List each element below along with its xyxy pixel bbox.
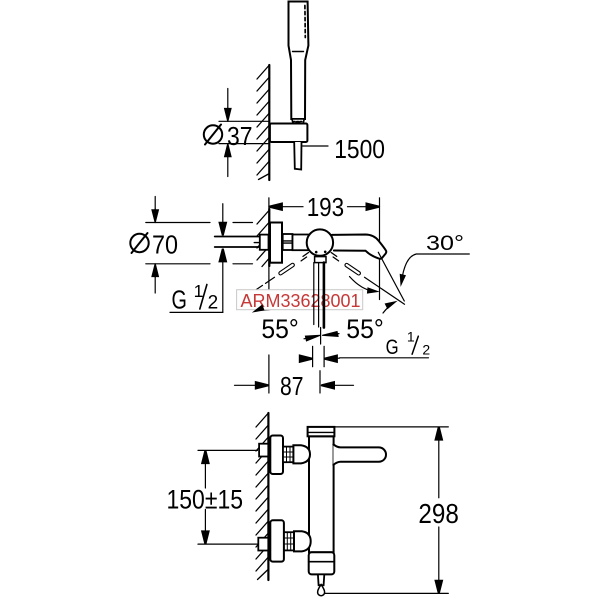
bottom union: in-wall pipe bbox=[258, 538, 268, 551]
svg-text:87: 87 bbox=[280, 371, 304, 401]
bottom outlet block bbox=[309, 552, 335, 574]
swing dashes right bbox=[331, 253, 338, 261]
connector scallop dots bbox=[294, 121, 304, 123]
wall line (middle view) bbox=[268, 209, 270, 266]
svg-text:70: 70 bbox=[152, 230, 178, 260]
svg-text:2: 2 bbox=[208, 293, 219, 314]
dimension G1/2 bottom arrows bbox=[300, 356, 313, 362]
dimension Ø37 extension lines bbox=[219, 89, 268, 177]
spray face dashes on head bbox=[304, 6, 306, 38]
dimension Ø70 arrows bbox=[152, 209, 158, 223]
right 55 arc arrow bbox=[350, 277, 375, 292]
dimension 87 bbox=[235, 355, 354, 393]
label Ø37 bbox=[204, 125, 222, 143]
dimension G1/2 top: underline and leader bbox=[170, 204, 223, 313]
lever handle bbox=[333, 444, 386, 465]
svg-text:55°: 55° bbox=[346, 314, 384, 344]
dimension Ø70 extension lines bbox=[146, 197, 253, 294]
water drop bbox=[318, 585, 325, 596]
wall line (bottom view) bbox=[267, 413, 269, 580]
wall line (top view) bbox=[268, 65, 270, 180]
dimension Ø37 dimension line bbox=[227, 89, 229, 111]
ARM33628001 box bbox=[237, 290, 363, 310]
dimension 193 arrows bbox=[269, 204, 282, 210]
handle capsule right (dashed position) bbox=[344, 263, 361, 276]
bottom union: escutcheon bbox=[270, 520, 284, 561]
body neck bbox=[293, 235, 309, 251]
dimension 150±15 bbox=[198, 450, 258, 544]
svg-text:193: 193 bbox=[307, 192, 345, 222]
top cap bbox=[308, 427, 335, 436]
hose connector cone bbox=[292, 119, 304, 124]
svg-text:2: 2 bbox=[422, 341, 430, 357]
left 55 arc bbox=[261, 305, 294, 311]
top union: nut bbox=[293, 445, 310, 463]
hose center line bbox=[320, 328, 322, 345]
label Ø70 bbox=[130, 234, 148, 252]
svg-text:298: 298 bbox=[418, 498, 458, 529]
dimension G1/2 bottom extension lines bbox=[302, 346, 429, 366]
svg-text:150±15: 150±15 bbox=[167, 485, 244, 515]
spout angle line 30deg bbox=[378, 252, 404, 301]
hose below holder bbox=[294, 142, 301, 170]
top union: threaded nipple bbox=[283, 447, 293, 463]
svg-text:1500: 1500 bbox=[334, 134, 385, 164]
30deg leader arc arrow bbox=[401, 254, 469, 283]
right swing line continuation bbox=[365, 277, 405, 304]
bottom union: threaded nipple bbox=[284, 532, 294, 550]
wall flange bbox=[270, 223, 282, 263]
top union: in-wall pipe bbox=[259, 444, 268, 457]
cartridge body circle bbox=[307, 229, 333, 255]
top union: escutcheon bbox=[270, 436, 283, 475]
svg-text:30°: 30° bbox=[426, 231, 464, 255]
left 55 arc arrowhead bbox=[252, 304, 265, 312]
screw dots bbox=[315, 251, 318, 254]
converge arrows at handle center bbox=[304, 335, 320, 341]
left swing line continuation bbox=[256, 277, 274, 289]
svg-text:1: 1 bbox=[194, 281, 204, 301]
bottom union: nut bbox=[294, 531, 311, 551]
wall hatching (middle view) bbox=[257, 211, 269, 267]
spout bbox=[332, 235, 386, 259]
dimension 298 bbox=[325, 427, 449, 594]
wall hatching (top view) bbox=[257, 66, 269, 180]
dimension Ø37 arrows bbox=[225, 108, 231, 121]
hose nipple bbox=[318, 574, 324, 585]
handle capsule left (dashed position) bbox=[278, 263, 295, 276]
30deg lower arc arrow bbox=[383, 303, 394, 313]
leader line 1500 bbox=[303, 145, 329, 147]
hand shower head bbox=[289, 2, 309, 120]
svg-text:G: G bbox=[172, 285, 187, 315]
handle stem lines bbox=[313, 263, 315, 325]
svg-text:37: 37 bbox=[227, 121, 253, 151]
dimension 193 extension lines bbox=[269, 198, 380, 300]
swing dashes left bbox=[301, 253, 308, 261]
body cylinder bbox=[309, 436, 334, 552]
svg-text:55°: 55° bbox=[261, 314, 298, 344]
handle collar bbox=[315, 257, 326, 263]
inlet pipe G1/2 bbox=[215, 236, 260, 238]
svg-text:1: 1 bbox=[407, 328, 415, 344]
wall hatching (bottom view) bbox=[256, 414, 268, 580]
shower holder bracket bbox=[270, 124, 308, 143]
threaded nut bbox=[283, 234, 293, 250]
svg-text:G: G bbox=[386, 335, 399, 359]
in-wall hex bbox=[260, 235, 269, 250]
head seam line bbox=[293, 51, 304, 53]
